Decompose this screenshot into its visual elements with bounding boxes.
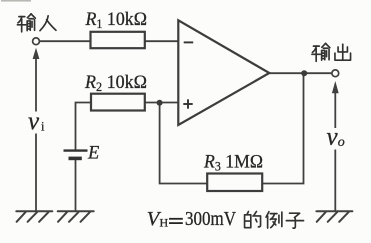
svg-text:v: v xyxy=(28,108,40,135)
svg-text:o: o xyxy=(338,135,345,150)
svg-text:R2 10kΩ: R2 10kΩ xyxy=(84,73,147,94)
svg-text:E: E xyxy=(87,144,99,164)
svg-text:i: i xyxy=(41,120,45,134)
svg-text:H: H xyxy=(160,216,169,230)
svg-text:v: v xyxy=(327,124,339,151)
svg-text:R3 1MΩ: R3 1MΩ xyxy=(203,153,263,174)
svg-text:300mV: 300mV xyxy=(185,209,236,230)
svg-text:R1 10kΩ: R1 10kΩ xyxy=(85,10,147,31)
